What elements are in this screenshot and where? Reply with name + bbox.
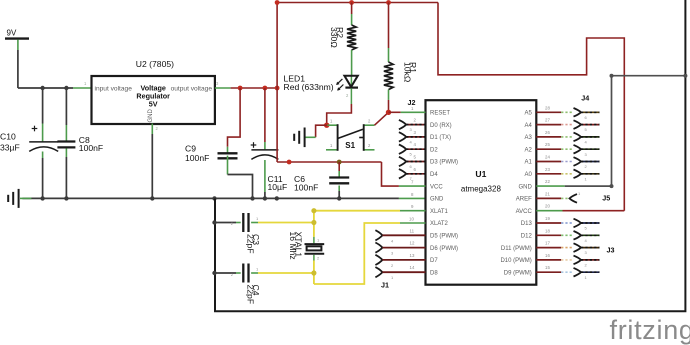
svg-text:2: 2 [346,93,349,98]
svg-text:1: 1 [256,267,259,272]
svg-text:100nF: 100nF [185,153,209,163]
svg-text:3: 3 [216,81,219,86]
svg-text:1: 1 [585,275,588,280]
svg-text:26: 26 [545,130,550,135]
svg-text:4: 4 [391,238,394,243]
svg-text:Red (633nm): Red (633nm) [284,82,334,92]
svg-text:D13: D13 [521,221,533,227]
svg-text:GND: GND [518,184,532,190]
svg-text:D3 (PWM): D3 (PWM) [430,160,458,166]
svg-text:1: 1 [317,238,320,243]
svg-text:J3: J3 [607,246,615,255]
svg-text:22pF: 22pF [246,285,256,305]
svg-text:D12: D12 [521,234,533,240]
svg-text:2: 2 [585,164,588,169]
svg-text:XLAT2: XLAT2 [430,221,449,227]
svg-text:15: 15 [545,265,550,270]
svg-text:3: 3 [585,250,588,255]
svg-text:AVCC: AVCC [516,209,533,215]
svg-text:S1: S1 [345,141,355,150]
svg-text:19: 19 [545,216,550,221]
svg-text:2: 2 [317,256,320,261]
svg-text:10: 10 [409,216,414,221]
svg-text:1: 1 [256,216,259,221]
svg-text:20: 20 [545,204,550,209]
svg-text:fritzing: fritzing [610,315,690,345]
svg-text:24: 24 [545,155,550,160]
svg-text:4: 4 [585,140,588,145]
svg-text:C9: C9 [185,144,196,154]
svg-text:4: 4 [585,238,588,243]
svg-text:28: 28 [545,105,550,110]
svg-text:22pF: 22pF [246,234,256,254]
svg-text:J4: J4 [581,93,589,102]
svg-text:13: 13 [410,253,415,258]
svg-text:5: 5 [585,127,588,132]
svg-text:VCC: VCC [430,184,443,190]
svg-text:330Ω: 330Ω [329,27,339,48]
svg-text:A3: A3 [524,135,532,141]
svg-text:9V: 9V [7,29,17,38]
svg-text:4: 4 [410,139,413,144]
svg-text:2: 2 [414,118,417,123]
svg-text:output voltage: output voltage [171,86,213,93]
svg-text:3: 3 [585,152,588,157]
svg-text:A4: A4 [524,123,532,129]
svg-text:3: 3 [391,251,394,256]
svg-text:1: 1 [330,143,333,148]
svg-text:14: 14 [410,265,415,270]
svg-text:GND: GND [148,109,154,123]
svg-text:21: 21 [545,191,550,196]
svg-text:11: 11 [410,228,415,233]
svg-text:7: 7 [411,180,414,185]
svg-text:5: 5 [414,155,417,160]
svg-text:17: 17 [545,241,550,246]
svg-text:RESET: RESET [430,111,450,117]
svg-text:33µF: 33µF [0,143,20,153]
svg-text:input voltage: input voltage [95,86,133,93]
svg-text:2: 2 [368,143,371,148]
svg-text:27: 27 [545,118,550,123]
svg-text:D11 (PWM): D11 (PWM) [501,246,532,252]
svg-text:D5 (PWM): D5 (PWM) [430,234,458,240]
svg-text:XLAT1: XLAT1 [430,209,449,215]
svg-text:D0 (RX): D0 (RX) [430,123,452,129]
svg-text:D8: D8 [430,270,438,276]
svg-text:2: 2 [585,263,588,268]
svg-text:10kΩ: 10kΩ [402,62,412,83]
svg-text:1: 1 [84,81,87,86]
svg-text:GND: GND [430,197,444,203]
svg-text:16: 16 [545,253,550,258]
svg-text:1: 1 [585,176,588,181]
svg-text:A0: A0 [524,172,532,178]
svg-text:1: 1 [391,275,394,280]
svg-text:D10 (PWM): D10 (PWM) [500,258,531,264]
svg-text:12: 12 [410,241,415,246]
svg-text:J2: J2 [408,98,416,107]
svg-text:D2: D2 [430,147,438,153]
svg-text:D9 (PWM): D9 (PWM) [504,270,532,276]
svg-text:100nF: 100nF [294,183,318,193]
svg-text:10µF: 10µF [268,182,288,192]
svg-text:6: 6 [410,164,413,169]
svg-text:5: 5 [585,226,588,231]
svg-text:D4: D4 [430,172,438,178]
svg-text:22: 22 [545,179,550,184]
svg-text:8: 8 [411,192,414,197]
svg-text:16 Mhz: 16 Mhz [288,232,298,260]
svg-text:100nF: 100nF [79,143,103,153]
svg-text:A5: A5 [524,111,532,117]
svg-text:5: 5 [410,152,413,157]
svg-text:D1 (TX): D1 (TX) [430,135,451,141]
svg-text:2: 2 [391,263,394,268]
svg-text:U2 (7805): U2 (7805) [136,59,174,69]
svg-text:A2: A2 [524,147,532,153]
svg-text:5V: 5V [149,100,158,109]
svg-text:atmega328: atmega328 [461,185,502,194]
svg-text:D6 (PWM): D6 (PWM) [430,246,458,252]
svg-text:9: 9 [411,204,414,209]
svg-text:D7: D7 [430,258,438,264]
svg-text:1: 1 [330,119,333,124]
svg-text:1: 1 [578,191,581,196]
svg-text:J5: J5 [602,194,610,203]
svg-text:23: 23 [545,167,550,172]
svg-text:2: 2 [156,126,159,131]
svg-text:A1: A1 [524,160,532,166]
svg-text:18: 18 [545,228,550,233]
svg-text:25: 25 [545,142,550,147]
svg-text:U1: U1 [475,169,486,179]
svg-text:AREF: AREF [516,197,532,203]
svg-text:6: 6 [585,115,588,120]
svg-text:J1: J1 [381,281,389,290]
svg-text:2: 2 [368,119,371,124]
svg-text:4: 4 [414,142,417,147]
svg-text:3: 3 [414,130,417,135]
svg-text:6: 6 [414,167,417,172]
svg-text:3: 3 [410,127,413,132]
svg-text:C10: C10 [0,132,16,142]
